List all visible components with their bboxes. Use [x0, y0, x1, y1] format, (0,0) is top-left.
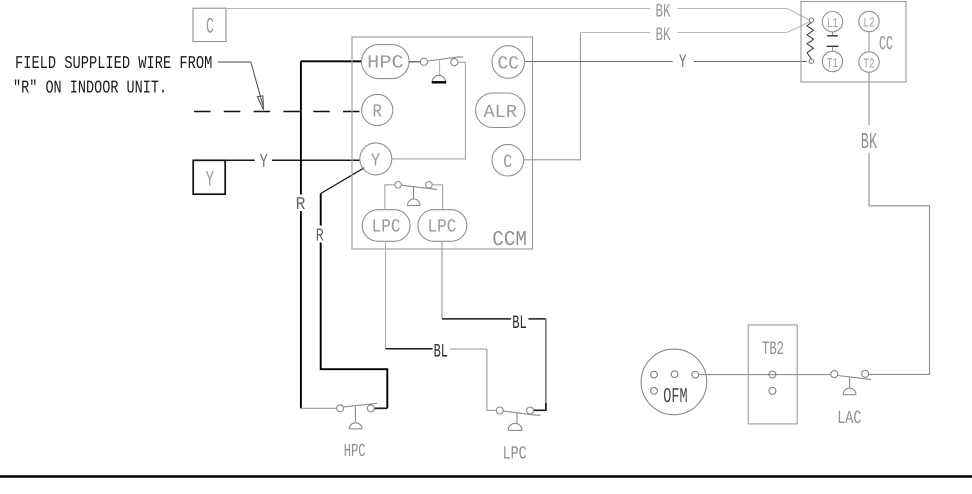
wire trunk to HPC switch left contact — [301, 407, 337, 409]
svg-text:LPC: LPC — [372, 217, 401, 238]
switch LAC — [831, 370, 871, 394]
terminal HPC (stadium) — [362, 45, 410, 79]
svg-text:HPC: HPC — [344, 441, 366, 462]
svg-text:CCM: CCM — [492, 229, 527, 252]
terminal T1 — [822, 51, 842, 71]
svg-text:BK: BK — [656, 1, 671, 23]
wire BL upper (right LPC to LPC switch) — [441, 241, 443, 319]
terminal block TB2 — [748, 325, 797, 424]
terminal T2 — [859, 52, 879, 72]
svg-text:Y: Y — [371, 150, 381, 171]
LPC pressure switch (bottom) — [496, 407, 540, 430]
svg-text:FIELD SUPPLIED WIRE FROM: FIELD SUPPLIED WIRE FROM — [15, 54, 212, 74]
HPC internal switch — [409, 57, 463, 66]
wire trunk R (HPC terminal down to HPC pressure switch) — [301, 61, 362, 408]
svg-text:TB2: TB2 — [762, 338, 784, 360]
svg-text:R: R — [316, 227, 324, 247]
svg-text:L2: L2 — [863, 17, 874, 32]
svg-text:BL: BL — [434, 341, 448, 363]
contactor coil (zigzag) — [807, 22, 814, 59]
terminal Y circle — [360, 143, 392, 175]
svg-text:LAC: LAC — [837, 408, 861, 429]
capacitor between L1 and T1 — [832, 32, 834, 36]
LPC internal switch — [395, 182, 437, 206]
svg-text:"R" ON INDOOR UNIT.: "R" ON INDOOR UNIT. — [13, 79, 167, 99]
wire BK from T2 down to LAC — [868, 72, 929, 374]
svg-text:C: C — [503, 152, 512, 173]
terminal box Y (field wiring) — [193, 160, 225, 194]
svg-text:CC: CC — [879, 33, 893, 55]
svg-text:T1: T1 — [827, 57, 838, 72]
svg-text:T2: T2 — [863, 58, 874, 73]
svg-text:LPC: LPC — [428, 217, 457, 238]
wire Y box to CCM Y terminal — [225, 159, 360, 161]
wire HPC switch to Y terminal (internal) — [392, 62, 466, 159]
wire to HPC switch right contact — [374, 407, 387, 409]
CCM module box — [352, 37, 533, 249]
terminal LPC left (stadium) — [362, 210, 410, 242]
contactor coil terminals — [809, 18, 813, 22]
terminal C circle — [492, 144, 524, 176]
terminal L2 — [859, 11, 879, 31]
svg-text:LPC: LPC — [503, 443, 527, 464]
svg-text:C: C — [206, 15, 214, 40]
leader line with arrowhead — [218, 62, 264, 110]
svg-text:OFM: OFM — [663, 386, 687, 409]
wire L2 to T2 — [868, 32, 870, 52]
svg-text:L1: L1 — [827, 17, 838, 32]
svg-text:BK: BK — [656, 24, 671, 46]
wire BK second (CCM C terminal to contactor coil) — [524, 33, 581, 160]
svg-text:HPC: HPC — [367, 52, 403, 73]
svg-text:BK: BK — [861, 129, 878, 155]
svg-text:BL: BL — [512, 312, 526, 334]
bottom border line — [0, 475, 972, 478]
svg-text:CC: CC — [498, 54, 520, 75]
instruction note text — [13, 54, 212, 99]
wire R (Y terminal to HPC switch right side) — [321, 168, 365, 194]
svg-text:Y: Y — [679, 51, 687, 73]
terminal R circle — [362, 94, 393, 125]
wires LPC switch to LPC terminals (internal) — [385, 185, 443, 209]
svg-text:Y: Y — [206, 168, 215, 193]
HPC pressure switch (bottom) — [337, 403, 377, 429]
svg-text:Y: Y — [260, 151, 268, 173]
terminal LPC right (stadium) — [418, 210, 467, 242]
fan motor OFM — [641, 349, 707, 415]
wire BL lower (left LPC to LPC switch) — [385, 241, 387, 348]
terminal box C (field wiring) — [193, 8, 226, 41]
terminal L1 — [822, 12, 842, 32]
wire BK top (C box to contactor coil) — [226, 9, 809, 20]
wire Y (CCM CC terminal to contactor coil) — [525, 61, 807, 63]
svg-text:ALR: ALR — [484, 102, 518, 123]
svg-text:R: R — [373, 102, 383, 123]
HPC internal switch actuator — [439, 59, 441, 75]
wire OFM to TB2 to LAC — [699, 374, 831, 376]
contactor CC box — [801, 2, 906, 83]
dashed field-supplied wire to R — [194, 111, 362, 113]
terminal ALR (stadium) — [476, 93, 525, 128]
svg-text:R: R — [296, 195, 306, 215]
terminal CC circle — [492, 46, 525, 79]
